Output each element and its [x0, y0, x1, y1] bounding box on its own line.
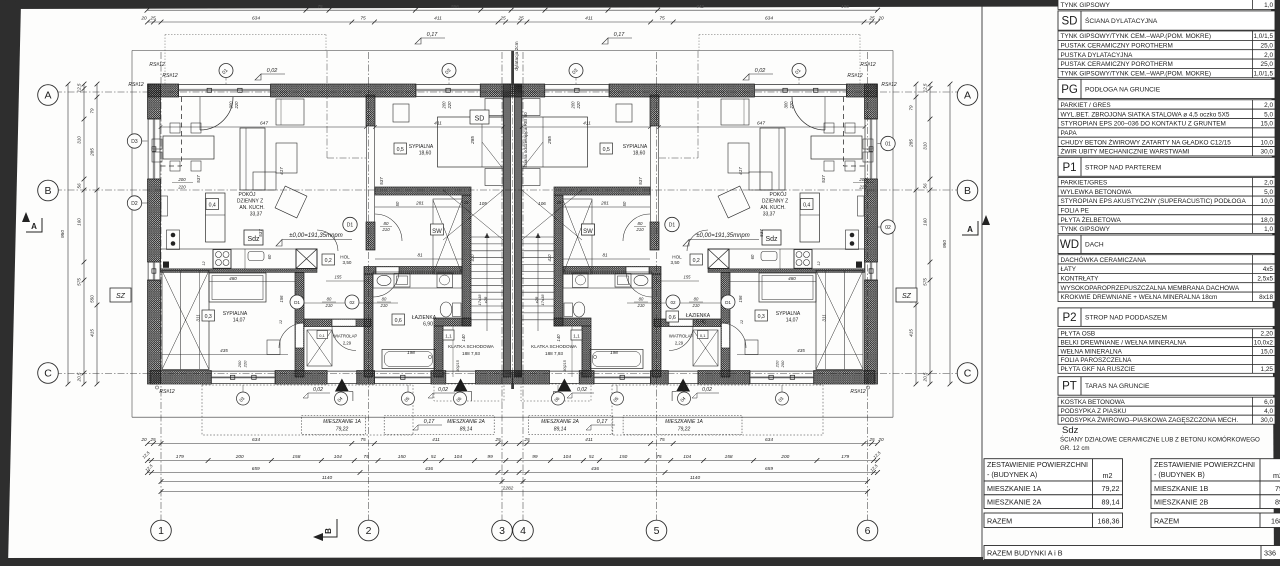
- svg-text:ŚCIANY DZIAŁOWE CERAMICZNE LUB: ŚCIANY DZIAŁOWE CERAMICZNE LUB Z BETONU …: [1060, 436, 1260, 444]
- svg-text:442: 442: [696, 4, 704, 9]
- svg-text:1,0/1,5: 1,0/1,5: [1253, 71, 1273, 78]
- svg-text:12,5: 12,5: [77, 83, 82, 92]
- svg-text:WEŁNA MINERALNA: WEŁNA MINERALNA: [1061, 348, 1123, 355]
- svg-text:PUSTAK CERAMICZNY POROTHERM: PUSTAK CERAMICZNY POROTHERM: [1061, 61, 1173, 68]
- svg-text:2,20: 2,20: [1261, 331, 1274, 338]
- svg-text:220: 220: [234, 101, 239, 110]
- svg-text:PODSYPKA Z PIASKU: PODSYPKA Z PIASKU: [1061, 408, 1127, 415]
- svg-text:281: 281: [415, 201, 424, 206]
- svg-text:PŁYTA OSB: PŁYTA OSB: [1061, 331, 1096, 338]
- svg-text:12,5: 12,5: [923, 83, 928, 92]
- svg-text:0,4: 0,4: [209, 203, 216, 209]
- svg-text:89,14: 89,14: [460, 427, 473, 433]
- svg-text:25: 25: [517, 15, 524, 21]
- svg-text:MIESZKANIE 2B: MIESZKANIE 2B: [1154, 498, 1209, 507]
- svg-text:411: 411: [434, 121, 442, 127]
- svg-text:RS#12: RS#12: [162, 73, 178, 79]
- svg-text:75: 75: [363, 454, 369, 460]
- svg-text:3,50: 3,50: [343, 260, 352, 265]
- svg-text:15,0: 15,0: [1261, 348, 1274, 355]
- svg-text:550: 550: [90, 295, 95, 303]
- svg-text:1,0: 1,0: [1264, 226, 1273, 233]
- svg-text:D1: D1: [294, 300, 300, 305]
- svg-text:220: 220: [177, 185, 186, 190]
- svg-text:SYPIALNA: SYPIALNA: [623, 144, 648, 150]
- svg-text:300: 300: [229, 101, 234, 109]
- svg-text:02: 02: [885, 225, 891, 231]
- svg-text:3,50: 3,50: [671, 260, 680, 265]
- svg-text:SD: SD: [475, 116, 485, 123]
- svg-text:A: A: [44, 90, 51, 102]
- svg-text:m2: m2: [1273, 471, 1280, 480]
- svg-text:10,0x2: 10,0x2: [1254, 339, 1274, 346]
- svg-text:411: 411: [585, 15, 593, 21]
- svg-text:105: 105: [479, 201, 487, 206]
- svg-text:6,90: 6,90: [423, 322, 433, 328]
- svg-text:575: 575: [923, 278, 928, 286]
- svg-text:75: 75: [360, 437, 366, 443]
- svg-text:25: 25: [494, 437, 501, 443]
- svg-text:4x5: 4x5: [1263, 266, 1274, 273]
- svg-text:MIESZKANIE 2A: MIESZKANIE 2A: [541, 419, 579, 425]
- svg-text:659: 659: [765, 466, 773, 472]
- svg-text:KLATKA SCHODOWA: KLATKA SCHODOWA: [448, 344, 495, 349]
- svg-text:30,0: 30,0: [1261, 417, 1274, 424]
- svg-text:ŚCIANA DYLATACYJNA: ŚCIANA DYLATACYJNA: [1085, 16, 1158, 25]
- svg-text:x28: x28: [534, 296, 539, 304]
- svg-text:210: 210: [635, 227, 644, 232]
- svg-text:02: 02: [349, 300, 355, 305]
- svg-text:PARKIET/GRES: PARKIET/GRES: [1061, 180, 1108, 187]
- svg-text:25,0: 25,0: [1261, 61, 1274, 68]
- svg-text:SYPIALNA: SYPIALNA: [409, 144, 434, 150]
- svg-text:1,0/1,5: 1,0/1,5: [1253, 33, 1273, 40]
- svg-text:480: 480: [229, 276, 237, 281]
- svg-text:RS#12: RS#12: [847, 73, 863, 79]
- svg-text:STROP NAD PODDASZEM: STROP NAD PODDASZEM: [1085, 314, 1167, 321]
- svg-text:220: 220: [858, 185, 867, 190]
- svg-text:104: 104: [563, 454, 571, 460]
- svg-text:410: 410: [470, 254, 475, 262]
- svg-text:634: 634: [252, 437, 260, 443]
- svg-text:200: 200: [235, 454, 244, 460]
- svg-text:WD: WD: [1060, 239, 1079, 251]
- svg-text:0,17: 0,17: [614, 32, 626, 38]
- svg-text:1,1: 1,1: [573, 334, 580, 339]
- svg-text:80: 80: [639, 297, 644, 302]
- svg-text:25: 25: [556, 200, 562, 205]
- svg-text:2,0: 2,0: [1264, 180, 1273, 187]
- svg-text:SW: SW: [583, 229, 593, 235]
- svg-text:537: 537: [821, 175, 826, 183]
- svg-text:20: 20: [140, 15, 147, 21]
- svg-text:Sdz: Sdz: [247, 236, 260, 243]
- svg-text:P1: P1: [1062, 162, 1076, 174]
- svg-text:659: 659: [252, 466, 260, 472]
- svg-text:634: 634: [765, 15, 773, 21]
- svg-text:PT: PT: [1062, 381, 1077, 393]
- svg-text:220: 220: [447, 101, 452, 110]
- svg-text:200: 200: [780, 360, 785, 368]
- svg-text:D1: D1: [725, 300, 731, 305]
- svg-text:SD: SD: [1062, 16, 1078, 28]
- svg-text:417: 417: [279, 167, 284, 175]
- svg-text:33,37: 33,37: [250, 212, 263, 218]
- svg-text:15,0: 15,0: [1261, 121, 1274, 128]
- svg-text:±0,00=191,35mnpm: ±0,00=191,35mnpm: [696, 233, 750, 239]
- svg-text:435: 435: [797, 348, 805, 353]
- svg-text:188 7,93: 188 7,93: [462, 351, 480, 356]
- svg-text:436: 436: [591, 466, 599, 472]
- svg-text:140: 140: [461, 334, 466, 342]
- svg-text:25: 25: [149, 15, 156, 21]
- svg-text:1140: 1140: [690, 475, 701, 481]
- svg-text:KLATKA SCHODOWA: KLATKA SCHODOWA: [531, 344, 578, 349]
- svg-text:410: 410: [547, 254, 552, 262]
- svg-text:99: 99: [532, 454, 538, 460]
- svg-text:B: B: [44, 185, 51, 197]
- svg-text:0,2: 0,2: [325, 258, 332, 264]
- svg-text:WIATROŁAP: WIATROŁAP: [333, 334, 358, 339]
- svg-text:20: 20: [877, 15, 884, 21]
- svg-text:0,02: 0,02: [267, 68, 278, 74]
- svg-text:79,22: 79,22: [336, 427, 349, 433]
- svg-text:ZESTAWIENIE POWIERZCHNI: ZESTAWIENIE POWIERZCHNI: [1154, 460, 1255, 469]
- svg-text:TYNK GIPSOWY: TYNK GIPSOWY: [1061, 2, 1111, 9]
- svg-text:P2: P2: [1062, 312, 1076, 324]
- svg-text:RS#12: RS#12: [128, 82, 144, 88]
- svg-text:FOLIA PAROSZCZELNA: FOLIA PAROSZCZELNA: [1061, 357, 1133, 364]
- svg-text:PODSYPKA ŻWIROWO–PIASKOWA ZAGĘ: PODSYPKA ŻWIROWO–PIASKOWA ZAGĘSZCZONA ME…: [1061, 415, 1239, 424]
- svg-text:1,0: 1,0: [1264, 2, 1273, 9]
- svg-text:TYNK GIPSOWY: TYNK GIPSOWY: [1061, 226, 1111, 233]
- svg-text:25: 25: [463, 200, 469, 205]
- svg-text:89,14: 89,14: [1275, 498, 1280, 507]
- svg-text:0,6: 0,6: [669, 315, 676, 321]
- svg-text:50: 50: [395, 201, 400, 206]
- svg-text:AN. KUCH.: AN. KUCH.: [760, 205, 785, 211]
- svg-text:HOL: HOL: [340, 255, 350, 260]
- svg-text:200: 200: [858, 177, 867, 182]
- svg-text:MIESZKANIE 1A: MIESZKANIE 1A: [323, 419, 361, 425]
- svg-text:Sdz: Sdz: [765, 236, 778, 243]
- svg-text:200: 200: [237, 360, 242, 368]
- svg-text:C: C: [44, 368, 52, 380]
- svg-text:A: A: [31, 222, 37, 231]
- svg-text:25: 25: [868, 15, 875, 21]
- svg-text:MIESZKANIE 1A: MIESZKANIE 1A: [987, 484, 1042, 493]
- svg-text:01: 01: [885, 142, 891, 148]
- svg-text:950: 950: [60, 230, 66, 238]
- svg-text:160: 160: [923, 218, 928, 226]
- svg-text:0,02: 0,02: [438, 387, 448, 393]
- svg-text:DZIENNY Z: DZIENNY Z: [762, 199, 788, 205]
- svg-text:0,02: 0,02: [755, 68, 766, 74]
- svg-text:TYNK GIPSOWY/TYNK CEM.–WAP.(PO: TYNK GIPSOWY/TYNK CEM.–WAP.(POM. MOKRE): [1061, 33, 1212, 40]
- svg-text:480: 480: [788, 276, 796, 281]
- svg-text:89,14: 89,14: [1102, 498, 1120, 507]
- svg-text:GR. 12 cm: GR. 12 cm: [1060, 445, 1090, 452]
- svg-text:220: 220: [576, 101, 581, 110]
- svg-text:C: C: [964, 368, 972, 380]
- svg-text:310: 310: [923, 142, 928, 150]
- svg-text:80: 80: [384, 221, 389, 226]
- svg-text:79,22: 79,22: [1102, 484, 1120, 493]
- svg-text:±0,00=191,35mnpm: ±0,00=191,35mnpm: [289, 233, 343, 239]
- svg-text:SYPIALNA: SYPIALNA: [776, 311, 801, 317]
- svg-text:8x18: 8x18: [1259, 294, 1273, 301]
- svg-text:PŁYTA ŻELBETOWA: PŁYTA ŻELBETOWA: [1061, 215, 1122, 224]
- svg-text:20: 20: [877, 437, 884, 443]
- svg-text:79,22: 79,22: [1275, 484, 1280, 493]
- svg-text:75: 75: [659, 15, 665, 21]
- svg-text:150: 150: [398, 454, 406, 460]
- svg-text:537: 537: [638, 177, 643, 185]
- svg-text:537: 537: [196, 175, 201, 183]
- svg-text:2: 2: [366, 525, 372, 537]
- svg-text:HOL: HOL: [672, 255, 682, 260]
- svg-text:75: 75: [659, 437, 665, 443]
- svg-text:PARKIET / GRES: PARKIET / GRES: [1061, 102, 1111, 109]
- svg-text:155: 155: [335, 275, 343, 280]
- svg-text:WYL.BET. ZBROJONA SIATKA STALO: WYL.BET. ZBROJONA SIATKA STALOWA ø 4,5 o…: [1061, 111, 1230, 118]
- svg-text:25: 25: [499, 15, 506, 21]
- svg-text:MIESZKANIE 1A: MIESZKANIE 1A: [665, 419, 703, 425]
- svg-text:436: 436: [425, 466, 433, 472]
- svg-text:20,5: 20,5: [923, 372, 928, 382]
- svg-text:210: 210: [692, 303, 701, 308]
- svg-text:2282: 2282: [502, 486, 514, 492]
- svg-text:B: B: [964, 185, 971, 197]
- svg-text:0,4: 0,4: [803, 203, 810, 209]
- svg-text:Sdz: Sdz: [1062, 425, 1079, 436]
- svg-text:575: 575: [77, 278, 82, 286]
- svg-text:60: 60: [750, 254, 755, 259]
- svg-text:4: 4: [520, 525, 526, 537]
- svg-text:D3: D3: [131, 139, 138, 145]
- svg-text:0,02: 0,02: [577, 387, 587, 393]
- svg-text:PAPA: PAPA: [1061, 130, 1078, 137]
- svg-text:0,17: 0,17: [597, 419, 609, 425]
- svg-text:PUSTKA DYLATACYJNA: PUSTKA DYLATACYJNA: [1061, 52, 1134, 59]
- svg-text:188 7,93: 188 7,93: [545, 351, 563, 356]
- svg-text:TYNK GIPSOWY/TYNK CEM.–WAP.(PO: TYNK GIPSOWY/TYNK CEM.–WAP.(POM. MOKRE): [1061, 71, 1212, 78]
- svg-text:281: 281: [600, 201, 609, 206]
- svg-text:200: 200: [177, 177, 186, 182]
- svg-text:0,5: 0,5: [397, 147, 404, 153]
- svg-text:17x18: 17x18: [540, 294, 545, 306]
- svg-text:0,3: 0,3: [758, 314, 765, 320]
- svg-text:PG: PG: [1061, 84, 1078, 96]
- svg-text:20: 20: [140, 437, 147, 443]
- svg-text:51: 51: [431, 454, 437, 460]
- svg-text:17x18: 17x18: [477, 294, 482, 306]
- svg-text:10,0: 10,0: [1261, 198, 1274, 205]
- svg-text:2,0: 2,0: [1264, 52, 1273, 59]
- svg-text:0,17: 0,17: [427, 32, 439, 38]
- svg-text:168,36: 168,36: [1098, 517, 1120, 526]
- svg-text:140: 140: [556, 334, 561, 342]
- svg-text:25,0: 25,0: [1261, 43, 1274, 50]
- svg-text:1,1: 1,1: [445, 334, 452, 339]
- svg-text:1: 1: [158, 525, 164, 537]
- svg-text:50: 50: [622, 201, 627, 206]
- svg-text:220: 220: [789, 101, 794, 110]
- svg-text:79,22: 79,22: [678, 427, 691, 433]
- svg-text:ZESTAWIENIE POWIERZCHNI: ZESTAWIENIE POWIERZCHNI: [987, 460, 1088, 469]
- svg-text:200: 200: [780, 454, 789, 460]
- svg-text:25: 25: [868, 437, 875, 443]
- svg-text:60: 60: [267, 254, 272, 259]
- svg-text:537: 537: [379, 177, 384, 185]
- svg-text:210: 210: [637, 303, 646, 308]
- svg-text:75: 75: [360, 15, 366, 21]
- svg-text:RAZEM BUDYNKI A i B: RAZEM BUDYNKI A i B: [987, 549, 1063, 558]
- svg-text:158: 158: [725, 454, 733, 460]
- svg-text:99: 99: [487, 454, 493, 460]
- svg-text:02: 02: [670, 300, 676, 305]
- svg-text:179: 179: [176, 454, 184, 460]
- svg-text:CHUDY BETON ŻWIROWY ZATARTY NA: CHUDY BETON ŻWIROWY ZATARTY NA GŁADKO C1…: [1061, 137, 1232, 146]
- svg-text:dylatacja 2cm: dylatacja 2cm: [514, 41, 520, 70]
- svg-text:3: 3: [499, 525, 505, 537]
- svg-text:x28: x28: [483, 296, 488, 304]
- svg-text:51: 51: [589, 454, 595, 460]
- svg-text:25: 25: [149, 437, 156, 443]
- svg-text:435: 435: [220, 348, 228, 353]
- svg-text:220: 220: [243, 360, 248, 368]
- svg-text:ŻWIR UBITY MECHANICZNIE WARSTW: ŻWIR UBITY MECHANICZNIE WARSTWAMI: [1061, 147, 1190, 156]
- svg-text:WYLEWKA BETONOWA: WYLEWKA BETONOWA: [1061, 189, 1133, 196]
- svg-text:STYROPIAN EPS AKUSTYCZNY (SUPE: STYROPIAN EPS AKUSTYCZNY (SUPERACUSTIC) …: [1061, 198, 1247, 205]
- svg-text:6,0: 6,0: [1264, 399, 1273, 406]
- svg-text:79: 79: [909, 105, 914, 111]
- svg-text:POKÓJ: POKÓJ: [239, 191, 256, 198]
- svg-text:18,0: 18,0: [1261, 217, 1274, 224]
- svg-text:WYSOKOPAROPRZEPUSZCZALNA MEMBR: WYSOKOPAROPRZEPUSZCZALNA MEMBRANA DACHOW…: [1061, 285, 1240, 292]
- svg-text:RS#12: RS#12: [860, 62, 876, 68]
- svg-text:80|215: 80|215: [563, 359, 567, 371]
- svg-text:- (BUDYNEK A): - (BUDYNEK A): [987, 470, 1037, 479]
- svg-text:415: 415: [90, 329, 95, 337]
- svg-text:81: 81: [602, 253, 608, 258]
- svg-text:25: 25: [523, 437, 530, 443]
- svg-text:FOLIA PE: FOLIA PE: [1061, 208, 1089, 215]
- svg-text:80|215: 80|215: [456, 359, 460, 371]
- svg-text:KOSTKA BETONOWA: KOSTKA BETONOWA: [1061, 399, 1126, 406]
- svg-text:79: 79: [90, 108, 95, 114]
- svg-text:4,0: 4,0: [1264, 408, 1273, 415]
- svg-text:D1: D1: [669, 223, 676, 229]
- svg-text:311: 311: [822, 314, 827, 322]
- svg-text:5,0: 5,0: [1264, 111, 1273, 118]
- svg-text:AN. KUCH.: AN. KUCH.: [239, 205, 264, 211]
- svg-text:179: 179: [841, 454, 849, 460]
- svg-text:156: 156: [738, 295, 743, 303]
- svg-text:6,90: 6,90: [696, 320, 706, 326]
- svg-text:210: 210: [380, 303, 389, 308]
- svg-text:ŁATY: ŁATY: [1061, 266, 1077, 273]
- svg-text:D1: D1: [347, 223, 354, 229]
- svg-text:A: A: [967, 225, 973, 234]
- svg-text:411: 411: [434, 15, 442, 21]
- svg-text:196: 196: [841, 4, 849, 9]
- svg-text:A: A: [964, 90, 971, 102]
- svg-text:- (BUDYNEK B): - (BUDYNEK B): [1154, 470, 1205, 479]
- svg-text:150: 150: [619, 454, 627, 460]
- svg-text:1,25: 1,25: [1261, 366, 1274, 373]
- svg-text:MIESZKANIE 2A: MIESZKANIE 2A: [987, 498, 1042, 507]
- svg-text:285: 285: [909, 139, 914, 148]
- svg-text:ŁAZIENKA: ŁAZIENKA: [686, 313, 711, 319]
- svg-text:155: 155: [684, 275, 692, 280]
- svg-text:200: 200: [442, 101, 447, 110]
- svg-text:310: 310: [77, 136, 82, 144]
- svg-text:200: 200: [571, 101, 576, 110]
- svg-text:RAZEM: RAZEM: [1154, 517, 1179, 526]
- svg-text:DACH: DACH: [1085, 242, 1104, 249]
- svg-text:0,2: 0,2: [693, 258, 700, 264]
- svg-text:75: 75: [656, 454, 662, 460]
- svg-text:STROP NAD PARTEREM: STROP NAD PARTEREM: [1085, 164, 1161, 171]
- svg-text:80: 80: [382, 297, 387, 302]
- svg-text:RS#12: RS#12: [159, 389, 175, 395]
- svg-text:DZIENNY Z: DZIENNY Z: [237, 199, 263, 205]
- svg-text:5: 5: [654, 525, 660, 537]
- svg-text:B: B: [324, 528, 333, 534]
- svg-text:2,29: 2,29: [343, 341, 352, 346]
- svg-text:PODŁOGA NA GRUNCIE: PODŁOGA NA GRUNCIE: [1085, 87, 1161, 94]
- svg-text:14,07: 14,07: [233, 318, 246, 324]
- svg-text:411: 411: [585, 437, 593, 443]
- svg-text:210: 210: [325, 303, 334, 308]
- svg-text:336: 336: [1264, 549, 1276, 558]
- svg-text:311: 311: [196, 314, 201, 322]
- svg-text:0,1: 0,1: [700, 333, 706, 338]
- svg-text:2,5x5: 2,5x5: [1257, 276, 1273, 283]
- svg-text:SW: SW: [432, 229, 442, 235]
- svg-text:106: 106: [538, 201, 546, 206]
- svg-text:KROKWIE DREWNIANE + WEŁNA MINE: KROKWIE DREWNIANE + WEŁNA MINERALNA 18cm: [1061, 294, 1218, 301]
- svg-text:220: 220: [775, 360, 780, 368]
- svg-text:156: 156: [279, 295, 284, 303]
- svg-text:RS#12: RS#12: [881, 82, 897, 88]
- svg-text:WIATROŁAP: WIATROŁAP: [669, 334, 694, 339]
- svg-text:33,37: 33,37: [763, 212, 776, 218]
- svg-text:634: 634: [252, 15, 260, 21]
- svg-text:RS#12: RS#12: [149, 62, 165, 68]
- svg-text:DACHÓWKA CERAMICZANA: DACHÓWKA CERAMICZANA: [1061, 255, 1147, 264]
- svg-text:168,36: 168,36: [1271, 517, 1280, 526]
- svg-text:634: 634: [765, 437, 773, 443]
- svg-text:285: 285: [90, 148, 95, 157]
- svg-text:80: 80: [638, 221, 643, 226]
- svg-text:SZ: SZ: [116, 293, 126, 300]
- svg-text:647: 647: [260, 121, 268, 127]
- svg-text:81: 81: [417, 253, 423, 258]
- svg-text:80: 80: [327, 297, 332, 302]
- svg-text:0,3: 0,3: [205, 314, 212, 320]
- svg-text:411: 411: [583, 121, 591, 127]
- svg-text:950: 950: [942, 240, 948, 248]
- svg-text:80: 80: [694, 297, 699, 302]
- svg-text:0,6: 0,6: [395, 318, 402, 324]
- svg-text:5,0: 5,0: [1264, 189, 1273, 196]
- svg-text:198: 198: [407, 350, 415, 355]
- svg-text:MIESZKANIE 1B: MIESZKANIE 1B: [1154, 484, 1209, 493]
- svg-text:14,07: 14,07: [786, 318, 799, 324]
- svg-text:75: 75: [317, 4, 323, 9]
